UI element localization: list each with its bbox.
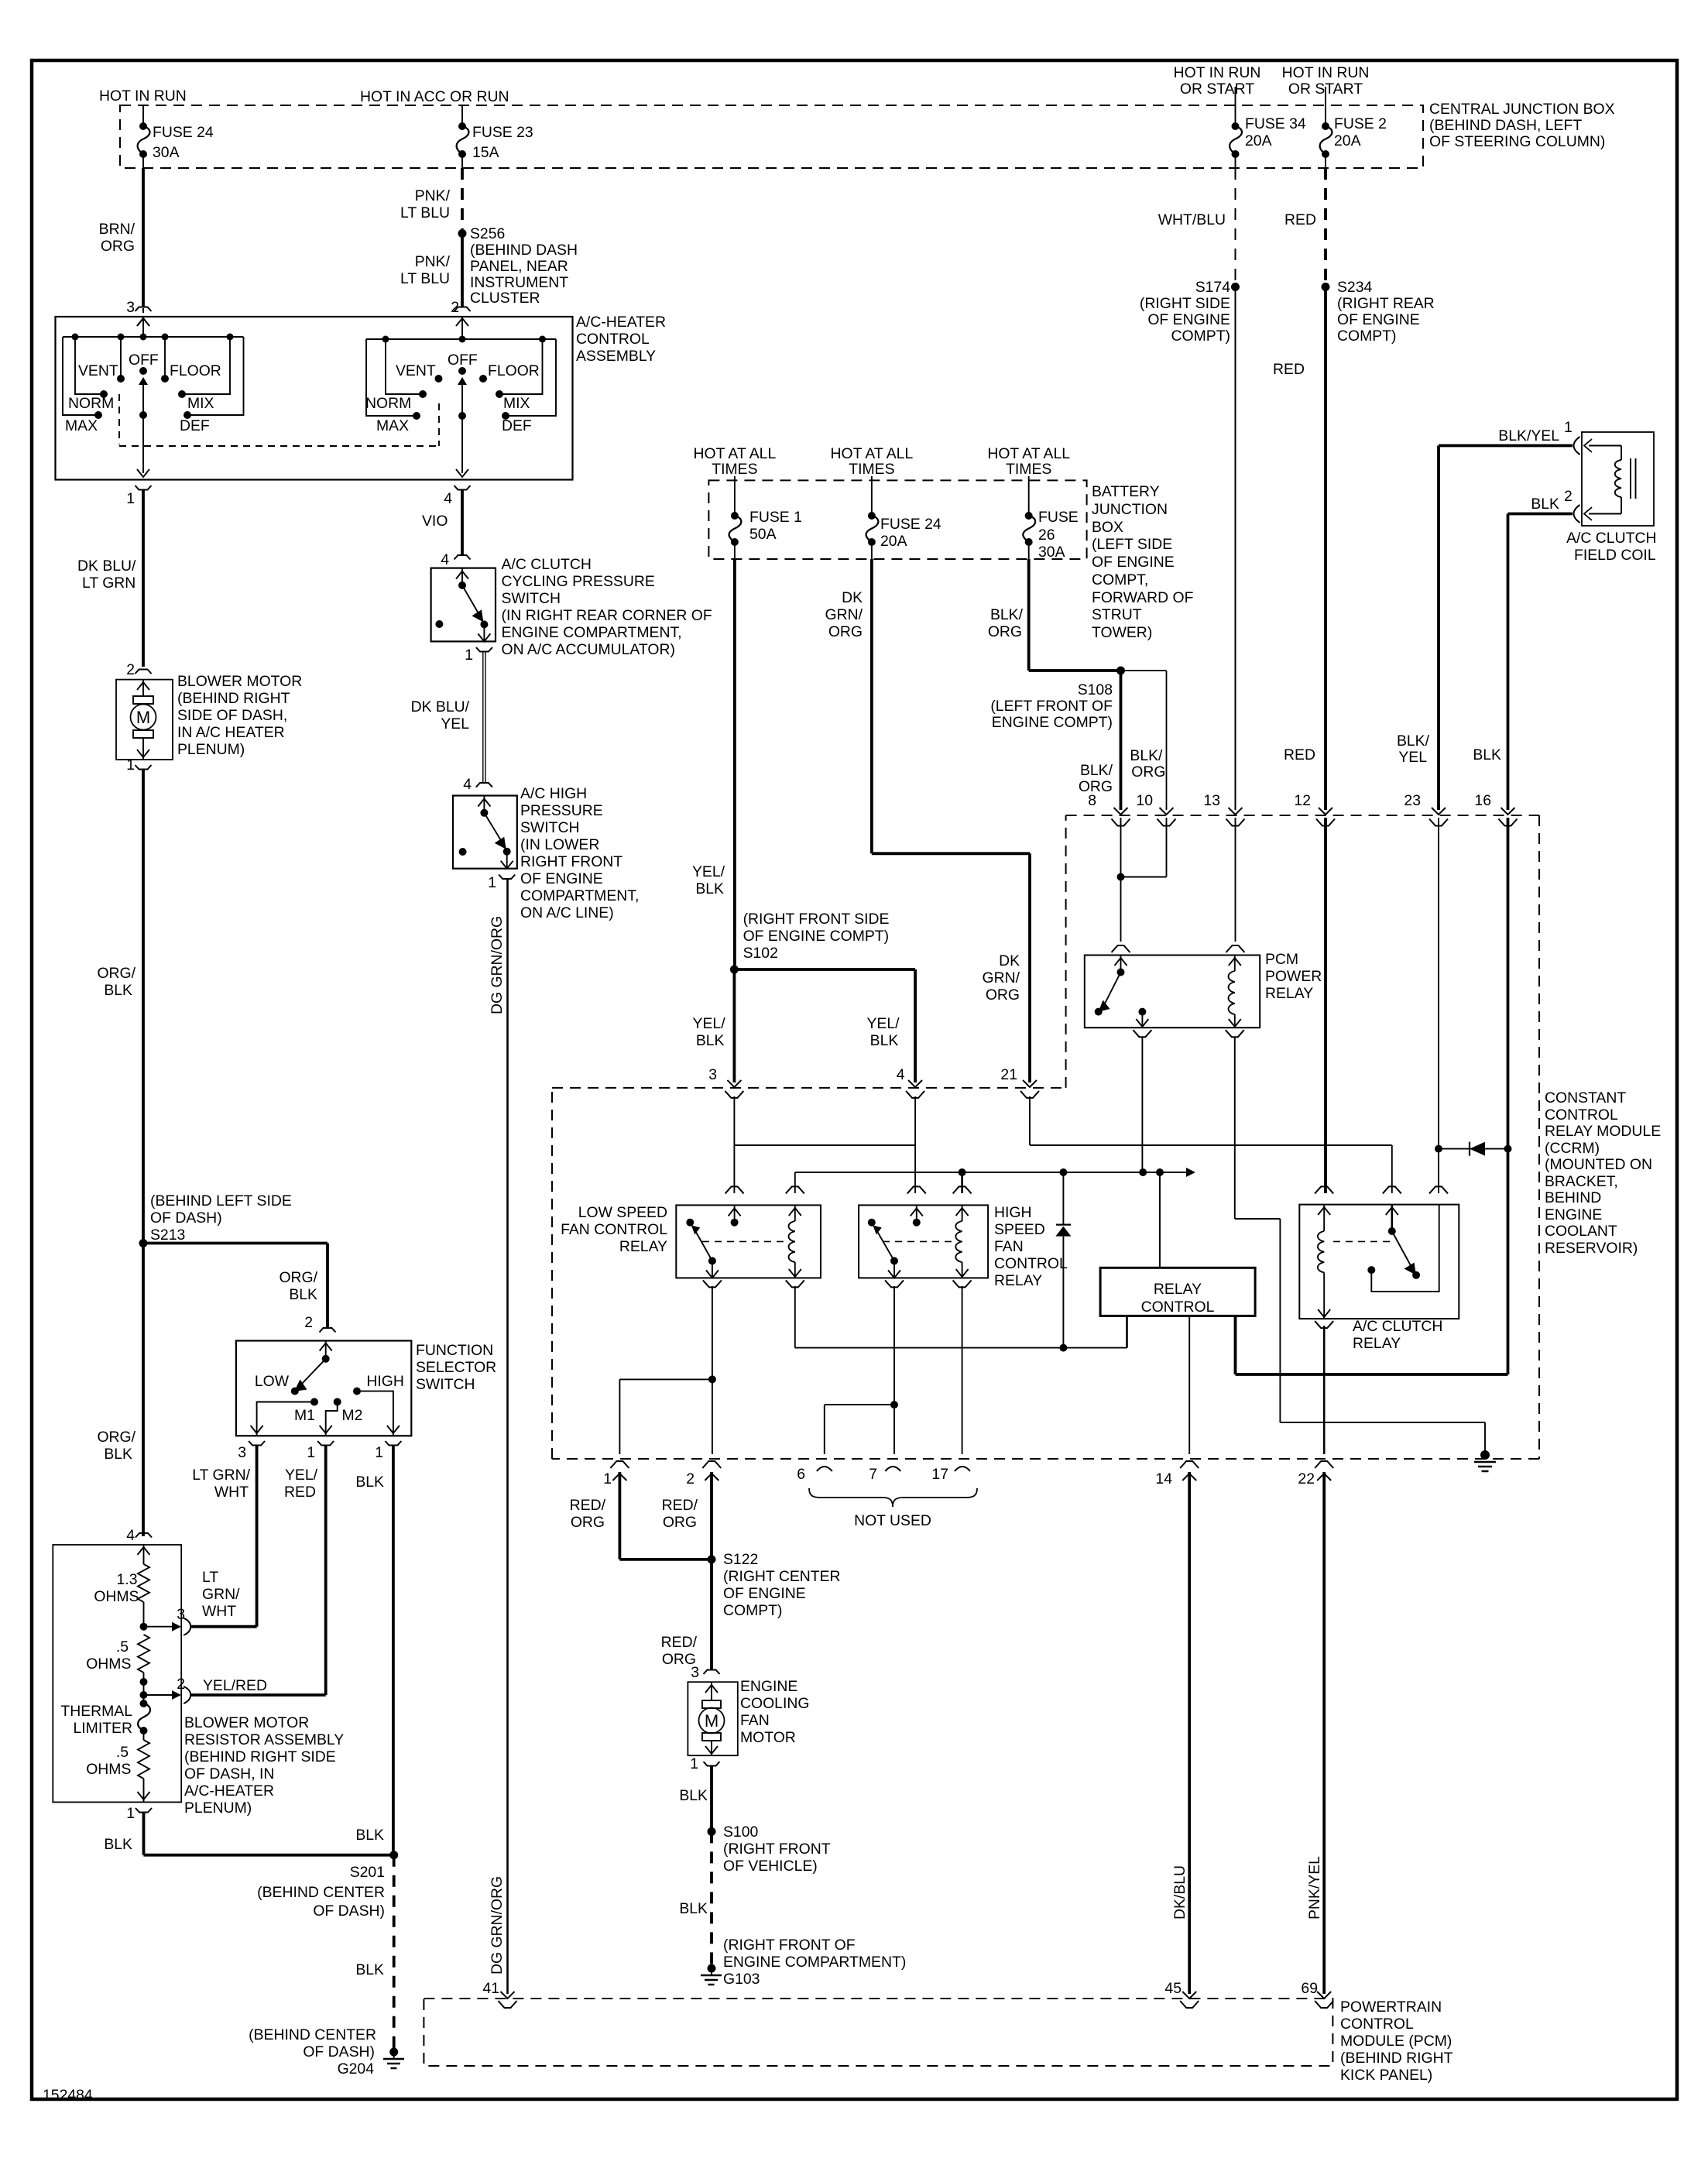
svg-text:HOT AT ALL: HOT AT ALL (987, 445, 1070, 462)
svg-text:RED/: RED/ (661, 1634, 698, 1651)
wire ORG/BLK S213 to resistor pin 4 (142, 1244, 145, 1537)
svg-text:ENGINE COMPARTMENT,: ENGINE COMPARTMENT, (502, 624, 682, 641)
svg-text:GRN/: GRN/ (825, 606, 863, 623)
wire LT GRN/WHT resistor pin 3 (191, 1625, 257, 1628)
svg-text:A/C CLUTCH: A/C CLUTCH (502, 556, 592, 573)
svg-text:1: 1 (307, 1444, 315, 1461)
svg-text:POWER: POWER (1265, 968, 1322, 985)
svg-text:COMPT,: COMPT, (1092, 571, 1148, 588)
CCRM wire relay control ground to pin 16 BLK (1234, 1316, 1237, 1374)
wire RED/ORG CCRM pin 1 to S122 (619, 1472, 622, 1559)
battery junction box (708, 480, 1086, 559)
svg-text:ENGINE: ENGINE (1545, 1206, 1602, 1223)
splice S213 (139, 1239, 148, 1247)
svg-text:RESISTOR ASSEMBLY: RESISTOR ASSEMBLY (184, 1731, 344, 1748)
heater right MAX contact (366, 339, 413, 416)
ground G103 (708, 1964, 716, 1973)
svg-text:SPEED: SPEED (994, 1221, 1045, 1238)
CCRM wire low speed coil to lower bus (794, 1286, 796, 1348)
fuse 24 20A (BJB) (871, 476, 873, 516)
svg-text:CONTROL: CONTROL (994, 1255, 1068, 1272)
svg-text:TOWER): TOWER) (1092, 624, 1152, 641)
wire BLK/YEL field coil pin 1 to CCRM pin 23 (1439, 444, 1573, 448)
svg-text:OF ENGINE: OF ENGINE (1092, 554, 1175, 571)
svg-text:YEL/: YEL/ (866, 1015, 900, 1032)
svg-text:26: 26 (1038, 527, 1055, 544)
svg-text:G204: G204 (338, 2060, 375, 2078)
low speed fan control relay (725, 1186, 744, 1193)
wire LT GRN/WHT selector pin 3 to resistor pin 3 (256, 1445, 259, 1627)
wire YEL/BLK fuse 1 to S102 (733, 559, 736, 969)
svg-text:4: 4 (441, 551, 449, 568)
heater right NORM contact (386, 339, 420, 394)
svg-text:50A: 50A (749, 526, 777, 543)
wire BLK resistor pin 1 to S201 (142, 1812, 146, 1855)
svg-text:4: 4 (126, 1527, 135, 1544)
svg-text:BLOWER MOTOR: BLOWER MOTOR (177, 673, 302, 690)
svg-text:BLOWER MOTOR: BLOWER MOTOR (184, 1714, 309, 1731)
CCRM wire pin 13 to PCM power relay coil (1235, 818, 1236, 942)
CCRM wire clutch relay coil to pin 22 (1323, 1326, 1326, 1454)
svg-text:S234: S234 (1337, 279, 1373, 296)
svg-text:JUNCTION: JUNCTION (1092, 501, 1168, 518)
svg-text:S122: S122 (723, 1551, 758, 1568)
svg-text:TIMES: TIMES (849, 461, 894, 478)
ground G204 (389, 2048, 398, 2057)
svg-text:(LEFT FRONT OF: (LEFT FRONT OF (990, 698, 1113, 715)
wire YEL/RED selector pin 1 to resistor pin 2 (324, 1445, 328, 1695)
svg-text:CENTRAL JUNCTION BOX: CENTRAL JUNCTION BOX (1429, 101, 1615, 118)
svg-text:CONSTANT: CONSTANT (1545, 1089, 1626, 1107)
svg-text:S100: S100 (723, 1824, 759, 1841)
svg-text:MIX: MIX (187, 395, 214, 412)
svg-text:YEL: YEL (441, 715, 469, 733)
svg-text:ORG/: ORG/ (97, 965, 135, 982)
resistor .5 ohms lower (143, 1731, 145, 1740)
A/C high pressure switch (453, 796, 517, 869)
svg-text:SIDE OF DASH,: SIDE OF DASH, (177, 707, 287, 724)
svg-text:BLK/: BLK/ (1080, 762, 1113, 779)
wire PNK/YEL CCRM pin 22 to PCM pin 69 (1322, 1472, 1326, 1994)
svg-text:M2: M2 (342, 1407, 363, 1424)
central junction box (CJB) (120, 105, 1423, 168)
fuse 23 15A (CJB) (461, 105, 463, 126)
splice S201 (389, 1851, 398, 1859)
constant control relay module (CCRM) outline (1066, 815, 1539, 816)
svg-text:LT GRN: LT GRN (82, 575, 135, 592)
svg-text:VENT: VENT (78, 362, 118, 379)
resistor bottom arrow (143, 1779, 145, 1802)
svg-text:LT: LT (202, 1569, 218, 1586)
resistor pin 3 arrow (144, 1626, 173, 1628)
wire RED S234 to CCRM pin 12 (1324, 287, 1327, 811)
svg-text:WHT: WHT (202, 1603, 236, 1620)
resistor 1.3 ohms (138, 1564, 149, 1602)
svg-text:RED: RED (1273, 361, 1305, 378)
svg-text:(IN LOWER: (IN LOWER (520, 836, 599, 853)
PCM power relay (1112, 945, 1130, 952)
svg-text:(RIGHT FRONT: (RIGHT FRONT (723, 1841, 831, 1858)
function selector LOW contact (291, 1388, 299, 1395)
wire ORG/BLK S213 to function selector pin 2 (143, 1242, 328, 1245)
svg-text:BLK: BLK (355, 1827, 384, 1844)
svg-text:HOT IN RUN: HOT IN RUN (99, 87, 187, 105)
svg-text:(CCRM): (CCRM) (1545, 1140, 1600, 1157)
svg-text:OF DASH): OF DASH) (303, 2043, 375, 2060)
svg-text:OF ENGINE: OF ENGINE (1337, 311, 1420, 328)
svg-text:OF ENGINE: OF ENGINE (520, 870, 603, 887)
svg-text:OF DASH, IN: OF DASH, IN (184, 1765, 274, 1782)
svg-text:4: 4 (463, 776, 472, 793)
svg-text:PLENUM): PLENUM) (184, 1800, 252, 1817)
svg-text:DK: DK (842, 589, 863, 606)
svg-text:ASSEMBLY: ASSEMBLY (576, 348, 656, 365)
svg-text:CONTROL: CONTROL (576, 331, 650, 348)
svg-text:A/C-HEATER: A/C-HEATER (576, 314, 666, 331)
heater left wiper (139, 377, 148, 385)
svg-text:A/C CLUTCH: A/C CLUTCH (1353, 1318, 1442, 1335)
svg-text:15A: 15A (472, 144, 499, 161)
splice S234 (1322, 283, 1330, 291)
wire BRN/ORG fuse 24 to heater pin 3 (142, 168, 145, 307)
A/C clutch field coil (1582, 432, 1654, 526)
svg-text:BATTERY: BATTERY (1092, 483, 1160, 500)
svg-text:OF ENGINE COMPT): OF ENGINE COMPT) (743, 928, 890, 945)
svg-text:(BEHIND LEFT SIDE: (BEHIND LEFT SIDE (150, 1192, 292, 1209)
svg-text:FAN: FAN (740, 1712, 770, 1729)
function selector switch (236, 1341, 411, 1436)
not used pins brace (809, 1488, 977, 1507)
svg-text:LT GRN/: LT GRN/ (192, 1467, 250, 1484)
svg-text:RIGHT FRONT: RIGHT FRONT (520, 853, 622, 870)
svg-text:FUSE 34: FUSE 34 (1245, 115, 1306, 132)
svg-text:NORM: NORM (365, 395, 411, 412)
svg-text:BRN/: BRN/ (99, 221, 135, 238)
CCRM wire PCM relay output to control bus (1141, 1037, 1143, 1172)
svg-text:2: 2 (1564, 488, 1573, 505)
svg-text:1.3: 1.3 (117, 1571, 138, 1588)
svg-text:M1: M1 (294, 1407, 315, 1424)
CCRM relay control bus (795, 1172, 1186, 1173)
svg-text:DK BLU/: DK BLU/ (77, 558, 136, 575)
svg-text:FLOOR: FLOOR (488, 362, 540, 379)
CCRM wire relay control to pin 14 (1188, 1316, 1190, 1454)
splice S122 (708, 1555, 716, 1563)
svg-text:S256: S256 (470, 225, 505, 242)
svg-text:THERMAL: THERMAL (60, 1703, 132, 1720)
svg-text:GRN/: GRN/ (983, 969, 1020, 986)
splice S108 (1116, 667, 1125, 675)
svg-text:RELAY: RELAY (994, 1272, 1042, 1289)
svg-text:BLK: BLK (696, 1032, 725, 1049)
svg-text:PLENUM): PLENUM) (177, 741, 245, 758)
svg-text:COOLING: COOLING (740, 1695, 809, 1712)
svg-text:TIMES: TIMES (712, 461, 757, 478)
svg-text:BLK/: BLK/ (990, 606, 1024, 623)
heater right wiper (458, 377, 467, 385)
svg-text:RESERVOIR): RESERVOIR) (1545, 1240, 1638, 1257)
svg-text:POWERTRAIN: POWERTRAIN (1340, 1999, 1442, 2016)
svg-text:RED/: RED/ (570, 1497, 606, 1514)
resistor junction dots (143, 1673, 145, 1704)
svg-text:BLK: BLK (679, 1787, 708, 1804)
svg-text:IN A/C HEATER: IN A/C HEATER (177, 724, 285, 741)
svg-text:FUSE 23: FUSE 23 (472, 124, 533, 141)
svg-text:HOT IN RUN: HOT IN RUN (1282, 64, 1370, 81)
svg-text:FUNCTION: FUNCTION (416, 1342, 493, 1359)
CCRM wire pin 12 to clutch relay coil (1324, 818, 1327, 1193)
svg-text:2: 2 (126, 661, 135, 678)
svg-text:COMPT): COMPT) (723, 1602, 782, 1619)
svg-text:OHMS: OHMS (94, 1588, 139, 1605)
svg-text:HIGH: HIGH (366, 1373, 403, 1390)
heater left VENT contact (120, 337, 122, 376)
A/C clutch relay (1315, 1186, 1333, 1193)
svg-text:NORM: NORM (68, 395, 114, 412)
svg-text:PANEL, NEAR: PANEL, NEAR (470, 258, 568, 275)
svg-text:RED: RED (284, 1484, 316, 1501)
svg-text:LT BLU: LT BLU (400, 270, 450, 287)
svg-text:4: 4 (897, 1066, 905, 1083)
svg-text:DK/BLU: DK/BLU (1171, 1865, 1188, 1920)
svg-text:PNK/: PNK/ (415, 187, 451, 204)
wire DK BLU/YEL cycling switch to high pressure switch (482, 651, 484, 784)
svg-text:BLK/YEL: BLK/YEL (1498, 427, 1559, 444)
svg-text:OFF: OFF (129, 352, 159, 369)
svg-text:BLK: BLK (104, 1446, 132, 1463)
svg-text:ORG: ORG (663, 1514, 697, 1531)
svg-text:MIX: MIX (503, 395, 530, 412)
heater left MIX contact (185, 337, 230, 394)
svg-text:(BEHIND DASH, LEFT: (BEHIND DASH, LEFT (1429, 117, 1582, 134)
wire VIO heater pin 4 to cycling switch (461, 489, 464, 555)
svg-text:S174: S174 (1195, 279, 1231, 296)
wire BLK/ORG S108 to CCRM pin 8 (1120, 671, 1123, 810)
svg-text:16: 16 (1474, 792, 1491, 809)
splice S102 (730, 966, 739, 974)
svg-text:OHMS: OHMS (86, 1655, 131, 1673)
svg-text:RELAY: RELAY (1353, 1335, 1401, 1352)
resistor tap pin 3 junction (143, 1602, 145, 1627)
svg-text:OF ENGINE: OF ENGINE (723, 1585, 806, 1602)
svg-text:152484: 152484 (43, 2087, 93, 2104)
svg-text:BLK: BLK (355, 1961, 384, 1978)
svg-text:(RIGHT CENTER: (RIGHT CENTER (723, 1568, 841, 1585)
svg-text:17: 17 (931, 1466, 948, 1483)
svg-text:1: 1 (126, 490, 135, 507)
svg-text:PNK/: PNK/ (415, 253, 451, 270)
svg-text:RELAY: RELAY (1265, 985, 1313, 1002)
svg-text:21: 21 (1000, 1066, 1017, 1083)
wire DK/BLU CCRM pin 14 to PCM pin 45 (1188, 1472, 1191, 1994)
A/C clutch cycling pressure switch (431, 568, 496, 642)
svg-text:10: 10 (1136, 792, 1153, 809)
CCRM wire high speed relay output to pin 7 (893, 1286, 895, 1454)
svg-text:BLK: BLK (679, 1900, 708, 1917)
wire BLK field coil pin 2 to CCRM pin 16 (1508, 513, 1573, 516)
CCRM ground (1480, 1450, 1490, 1460)
svg-text:LT BLU: LT BLU (400, 204, 450, 221)
svg-text:2: 2 (686, 1470, 695, 1487)
svg-text:1: 1 (126, 1805, 135, 1822)
heater right switch bus (366, 338, 556, 340)
svg-text:20A: 20A (1334, 132, 1361, 149)
svg-text:MOTOR: MOTOR (740, 1729, 796, 1746)
svg-text:ORG: ORG (986, 986, 1020, 1004)
svg-text:DK BLU/: DK BLU/ (411, 698, 470, 715)
heater right MIX contact (502, 339, 543, 394)
CCRM wire pin 3 to low speed relay (733, 1096, 735, 1193)
svg-text:OF ENGINE: OF ENGINE (1147, 311, 1230, 328)
svg-text:LIMITER: LIMITER (74, 1720, 133, 1737)
wire BLK/ORG fuse 26 to S108 (1027, 559, 1031, 671)
wire BLK selector pin 1 to S201 (392, 1445, 395, 1855)
svg-text:ORG: ORG (101, 238, 135, 255)
svg-text:VIO: VIO (422, 513, 448, 530)
svg-text:45: 45 (1164, 1980, 1182, 1997)
svg-text:HOT IN ACC OR RUN: HOT IN ACC OR RUN (360, 88, 509, 105)
svg-text:(RIGHT FRONT OF: (RIGHT FRONT OF (723, 1937, 856, 1954)
heater left switch bus (63, 336, 244, 338)
svg-text:CONTROL: CONTROL (1545, 1107, 1618, 1124)
svg-text:FAN: FAN (994, 1238, 1024, 1255)
fuse 34 20A (CJB) (1235, 87, 1236, 126)
svg-text:3: 3 (177, 1606, 185, 1623)
svg-text:S102: S102 (743, 945, 778, 962)
resistor feed arrow (143, 1545, 145, 1564)
svg-text:.5: .5 (116, 1638, 129, 1655)
resistor pin 2 arrow (144, 1694, 173, 1696)
svg-text:8: 8 (1088, 792, 1096, 809)
svg-text:FORWARD OF: FORWARD OF (1092, 589, 1194, 606)
svg-text:FUSE 24: FUSE 24 (880, 516, 941, 533)
svg-text:2: 2 (177, 1676, 185, 1693)
svg-text:OF STEERING COLUMN): OF STEERING COLUMN) (1429, 133, 1605, 150)
svg-text:DK: DK (999, 952, 1020, 969)
svg-text:MAX: MAX (65, 417, 98, 434)
svg-text:1: 1 (603, 1470, 612, 1487)
svg-text:INSTRUMENT: INSTRUMENT (470, 274, 568, 291)
svg-text:HIGH: HIGH (994, 1204, 1031, 1221)
svg-text:3: 3 (238, 1444, 246, 1461)
heater left switch feed arrow (142, 317, 144, 337)
svg-text:RED/: RED/ (662, 1497, 698, 1514)
svg-text:A/C HIGH: A/C HIGH (520, 785, 587, 802)
svg-text:(MOUNTED ON: (MOUNTED ON (1545, 1156, 1652, 1173)
thermal limiter (140, 1700, 148, 1707)
svg-text:ORG: ORG (828, 623, 863, 640)
svg-text:22: 22 (1298, 1470, 1315, 1487)
svg-text:DG GRN/ORG: DG GRN/ORG (489, 916, 506, 1014)
svg-text:ORG: ORG (1131, 763, 1165, 781)
powertrain control module (PCM) (424, 1999, 1332, 2066)
heater left NORM contact (75, 337, 101, 394)
svg-text:BLK: BLK (104, 1836, 132, 1853)
svg-text:OF VEHICLE): OF VEHICLE) (723, 1858, 818, 1875)
svg-text:OF DASH): OF DASH) (313, 1903, 385, 1920)
svg-text:(BEHIND CENTER: (BEHIND CENTER (257, 1884, 385, 1901)
wire YEL/BLK S102 to CCRM pin 4 (734, 968, 915, 971)
svg-text:3: 3 (708, 1066, 717, 1083)
svg-text:BLK: BLK (870, 1032, 899, 1049)
svg-text:LOW SPEED: LOW SPEED (578, 1204, 667, 1221)
svg-text:M: M (705, 1711, 719, 1731)
svg-text:BLK/: BLK/ (1397, 733, 1430, 750)
svg-text:OF DASH): OF DASH) (150, 1209, 222, 1227)
svg-text:SWITCH: SWITCH (502, 590, 561, 607)
svg-text:TIMES: TIMES (1006, 461, 1051, 478)
svg-text:FUSE: FUSE (1038, 509, 1079, 526)
svg-text:20A: 20A (880, 533, 907, 550)
heater switch ganged linkage (118, 394, 120, 444)
svg-text:S108: S108 (1078, 681, 1113, 698)
svg-text:STRUT: STRUT (1092, 606, 1142, 623)
CCRM wire pin 4 to high speed relay (914, 1096, 916, 1193)
diode A/C clutch (1439, 1148, 1508, 1150)
svg-text:RELAY: RELAY (619, 1238, 667, 1255)
svg-text:ENGINE: ENGINE (740, 1678, 797, 1695)
svg-text:30A: 30A (1038, 544, 1065, 561)
svg-text:BLK: BLK (104, 982, 132, 999)
svg-text:CYCLING PRESSURE: CYCLING PRESSURE (502, 573, 655, 590)
heater left OFF contact (139, 367, 147, 375)
CCRM wire pin 10 to pin 8 junction (1166, 818, 1168, 877)
function selector wiper (301, 1359, 326, 1384)
svg-text:MAX: MAX (376, 417, 409, 434)
CCRM wire bus to high speed relay coil (961, 1172, 963, 1193)
svg-text:CONTROL: CONTROL (1141, 1299, 1215, 1316)
svg-text:14: 14 (1155, 1470, 1172, 1487)
svg-text:(RIGHT REAR: (RIGHT REAR (1337, 295, 1435, 312)
svg-text:(RIGHT SIDE: (RIGHT SIDE (1140, 295, 1230, 312)
svg-text:(BEHIND CENTER: (BEHIND CENTER (249, 2026, 376, 2043)
svg-text:13: 13 (1203, 792, 1220, 809)
engine cooling fan motor (688, 1682, 737, 1755)
blower motor resistor assembly (53, 1545, 181, 1802)
svg-text:COOLANT: COOLANT (1545, 1223, 1617, 1240)
svg-text:69: 69 (1301, 1980, 1318, 1997)
svg-text:CONTROL: CONTROL (1340, 2016, 1414, 2033)
svg-text:BLK: BLK (1473, 746, 1501, 763)
CCRM wire pin 1 jumper (619, 1378, 712, 1380)
svg-text:BLK/: BLK/ (1130, 747, 1163, 764)
svg-text:A/C CLUTCH: A/C CLUTCH (1566, 530, 1656, 547)
svg-text:HOT AT ALL: HOT AT ALL (831, 445, 914, 462)
svg-text:(BEHIND RIGHT SIDE: (BEHIND RIGHT SIDE (184, 1748, 336, 1765)
wire PNK/LT BLU fuse 23 to S256 (461, 168, 464, 229)
svg-text:3: 3 (126, 299, 135, 316)
svg-text:COMPARTMENT,: COMPARTMENT, (520, 887, 639, 904)
svg-text:BOX: BOX (1092, 519, 1123, 536)
svg-text:(IN RIGHT REAR CORNER OF: (IN RIGHT REAR CORNER OF (502, 607, 712, 624)
svg-text:YEL: YEL (1398, 749, 1427, 766)
svg-text:(BEHIND RIGHT: (BEHIND RIGHT (177, 690, 290, 707)
svg-text:PCM: PCM (1265, 951, 1298, 968)
svg-text:BLK: BLK (1531, 496, 1559, 513)
svg-text:7: 7 (869, 1466, 877, 1483)
heater right DEF contact (509, 339, 556, 416)
wire WHT/BLU fuse 34 to S174 (1235, 168, 1236, 283)
svg-text:LOW: LOW (255, 1373, 290, 1390)
svg-text:1: 1 (1564, 419, 1573, 436)
svg-text:1: 1 (465, 647, 473, 664)
wire BLK S201 to G204 (393, 1855, 396, 2048)
svg-text:1: 1 (375, 1444, 383, 1461)
svg-text:(LEFT SIDE: (LEFT SIDE (1092, 536, 1172, 553)
svg-text:SWITCH: SWITCH (520, 819, 579, 836)
wire DG GRN/ORG high pressure switch to PCM pin 41 (506, 878, 509, 1994)
CCRM lower bus to relay control (795, 1347, 1127, 1349)
